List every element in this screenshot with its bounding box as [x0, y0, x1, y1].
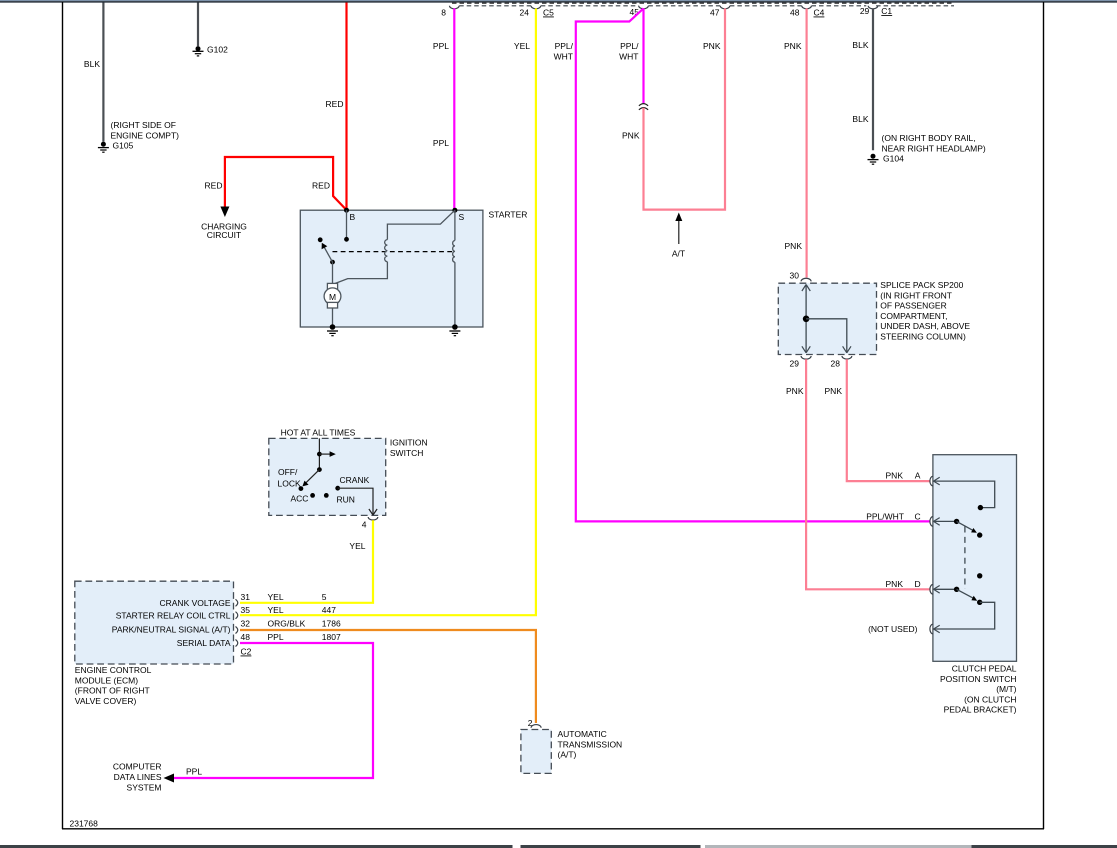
clutch pin A cup and arrow — [930, 476, 940, 486]
splice pack pin 29 cup — [790, 356, 812, 369]
svg-text:POSITION SWITCH: POSITION SWITCH — [940, 674, 1017, 684]
svg-text:STARTER: STARTER — [489, 210, 528, 220]
svg-text:G102: G102 — [207, 44, 228, 54]
svg-text:CIRCUIT: CIRCUIT — [207, 230, 241, 240]
clutch pin A internal path — [934, 481, 995, 510]
svg-text:RED: RED — [312, 181, 330, 191]
svg-text:48: 48 — [790, 8, 800, 18]
wire PPL/WHT pin 45 down to break — [619, 8, 643, 103]
svg-text:PNK: PNK — [622, 131, 640, 141]
svg-text:CRANK: CRANK — [340, 475, 370, 485]
svg-text:UNDER DASH, ABOVE: UNDER DASH, ABOVE — [880, 321, 970, 331]
svg-text:30: 30 — [790, 271, 800, 281]
svg-text:A: A — [915, 471, 921, 481]
ignition switch box — [269, 428, 428, 516]
svg-text:CLUTCH PEDAL: CLUTCH PEDAL — [952, 664, 1017, 674]
svg-text:PPL: PPL — [186, 767, 202, 777]
wire PPL/WHT pin 45 to clutch switch pin C — [554, 8, 930, 521]
svg-text:OFF/: OFF/ — [278, 467, 298, 477]
label PPL/WHT at clutch pin C — [866, 512, 920, 522]
starter solenoid switch blade — [318, 237, 335, 264]
svg-text:(IN RIGHT FRONT: (IN RIGHT FRONT — [880, 290, 952, 300]
svg-text:COMPUTER: COMPUTER — [113, 762, 162, 772]
svg-text:231768: 231768 — [70, 819, 99, 829]
svg-text:YEL: YEL — [349, 541, 365, 551]
clutch pedal position switch box — [933, 455, 1017, 715]
clutch pin D cup and arrow — [930, 585, 940, 595]
svg-text:(M/T): (M/T) — [996, 684, 1016, 694]
svg-text:ACC: ACC — [291, 494, 309, 504]
wire YEL pin 24 to ECM pin 35 — [240, 8, 536, 615]
svg-text:C: C — [915, 512, 921, 522]
ignition switch blade — [302, 467, 321, 486]
svg-text:G105: G105 — [113, 141, 134, 151]
svg-text:48: 48 — [241, 632, 251, 642]
svg-text:BLK: BLK — [84, 59, 100, 69]
wire PPL pin 8 to starter S — [433, 8, 454, 210]
clutch switch upper blade — [934, 519, 983, 538]
ignition switch pin 4 cup — [362, 517, 378, 530]
svg-text:C2: C2 — [241, 647, 252, 657]
svg-text:A/T: A/T — [672, 249, 685, 259]
top bar (previous section remnant) — [0, 0, 1117, 3]
ground G105 — [98, 120, 179, 152]
svg-text:YEL: YEL — [268, 605, 284, 615]
clutch switch lower blade — [934, 587, 983, 605]
svg-text:BLK: BLK — [852, 114, 868, 124]
svg-text:PPL: PPL — [433, 138, 449, 148]
svg-text:DATA LINES: DATA LINES — [114, 772, 162, 782]
ECM pin 48 C2 — [236, 632, 341, 657]
svg-text:RED: RED — [205, 181, 223, 191]
svg-text:YEL: YEL — [514, 41, 530, 51]
svg-text:G104: G104 — [883, 154, 904, 164]
ECM pin 32 — [236, 619, 341, 634]
svg-text:SYSTEM: SYSTEM — [127, 782, 162, 792]
connector dashed line at top (C5/C4/C1 row) — [459, 5, 954, 7]
clutch not-used pin cup and arrow — [868, 624, 940, 634]
svg-text:AUTOMATIC: AUTOMATIC — [558, 729, 607, 739]
clutch pin C cup and arrow — [930, 517, 940, 527]
svg-text:PNK: PNK — [825, 386, 843, 396]
svg-text:HOT AT ALL TIMES: HOT AT ALL TIMES — [281, 428, 356, 438]
svg-text:C1: C1 — [881, 6, 892, 16]
svg-text:ENGINE CONTROL: ENGINE CONTROL — [75, 665, 152, 675]
svg-text:(RIGHT SIDE OF: (RIGHT SIDE OF — [111, 120, 177, 130]
svg-text:VALVE COVER): VALVE COVER) — [75, 696, 137, 706]
ground G104 — [868, 133, 986, 164]
wire RED main vertical to starter B — [326, 3, 347, 211]
diagram id 231768 — [70, 819, 99, 829]
connector cup pin 24 C5 — [520, 6, 555, 18]
starter hold-in winding — [453, 210, 455, 327]
wire PPL ECM pin 48 serial data — [167, 643, 373, 778]
ignition switch contacts — [278, 467, 370, 505]
svg-text:SERIAL DATA: SERIAL DATA — [177, 638, 231, 648]
svg-text:B: B — [350, 212, 356, 222]
starter solenoid ground — [449, 324, 460, 336]
wire break symbol — [639, 104, 648, 110]
svg-text:COMPARTMENT,: COMPARTMENT, — [880, 311, 947, 321]
starter mechanical dashed link — [333, 251, 455, 253]
starter terminal B — [344, 208, 356, 222]
wire RED branch to charging circuit — [205, 157, 347, 210]
clutch not-used internal path — [934, 602, 995, 629]
svg-text:28: 28 — [831, 359, 841, 369]
starter box — [300, 210, 527, 328]
ECM pin 35 — [236, 605, 337, 619]
svg-text:SPLICE PACK SP200: SPLICE PACK SP200 — [880, 280, 963, 290]
svg-text:PNK: PNK — [785, 241, 803, 251]
wire PNK splice 28 to clutch pin A — [825, 359, 930, 481]
svg-text:2: 2 — [528, 718, 533, 728]
svg-text:(A/T): (A/T) — [558, 750, 577, 760]
connector cup pin 45 — [630, 6, 649, 17]
svg-text:1786: 1786 — [322, 619, 341, 629]
svg-text:1807: 1807 — [322, 632, 341, 642]
wire BLK to G102 — [197, 3, 199, 47]
svg-text:35: 35 — [241, 605, 251, 615]
svg-text:47: 47 — [710, 8, 720, 18]
svg-text:PPL/: PPL/ — [555, 41, 574, 51]
starter motor ground — [327, 324, 338, 336]
splice pack box SP200 — [778, 280, 970, 355]
wire PNK splice 29 to clutch pin D — [786, 359, 930, 589]
svg-text:PARK/NEUTRAL SIGNAL (A/T): PARK/NEUTRAL SIGNAL (A/T) — [112, 625, 231, 635]
svg-text:PPL/: PPL/ — [620, 41, 639, 51]
svg-text:WHT: WHT — [619, 52, 638, 62]
svg-text:(NOT USED): (NOT USED) — [868, 624, 918, 634]
ignition switch feed wire — [317, 438, 336, 469]
connector cup pin 8 — [441, 6, 459, 18]
svg-text:NEAR RIGHT HEADLAMP): NEAR RIGHT HEADLAMP) — [882, 144, 986, 154]
svg-text:LOCK: LOCK — [278, 479, 301, 489]
splice pack pin 30 cup — [790, 271, 812, 282]
ECM pin 31 — [236, 592, 327, 606]
svg-text:PNK: PNK — [703, 41, 721, 51]
svg-text:YEL: YEL — [268, 592, 284, 602]
wire ORG/BLK ECM pin 32 to A/T — [240, 630, 536, 723]
svg-text:CRANK VOLTAGE: CRANK VOLTAGE — [159, 598, 230, 608]
svg-text:WHT: WHT — [554, 52, 573, 62]
connector cup pin 47 — [710, 6, 730, 18]
splice pack pin 28 cup — [831, 356, 852, 369]
svg-text:(ON CLUTCH: (ON CLUTCH — [964, 694, 1016, 704]
wire BLK to G105 — [84, 3, 103, 142]
svg-text:PNK: PNK — [784, 41, 802, 51]
splice pack internal bus — [802, 285, 851, 353]
bottom next-page tab bar — [0, 845, 1117, 848]
svg-text:PNK: PNK — [886, 471, 904, 481]
svg-text:ENGINE COMPT): ENGINE COMPT) — [111, 131, 180, 141]
wire PNK break to pin 47 — [622, 8, 725, 209]
arrow from A/T — [672, 213, 685, 259]
svg-text:STARTER RELAY COIL CTRL: STARTER RELAY COIL CTRL — [116, 611, 231, 621]
wire BLK pin 29 to G104 — [852, 8, 873, 150]
svg-text:PNK: PNK — [886, 579, 904, 589]
svg-text:IGNITION: IGNITION — [390, 438, 428, 448]
clutch switch mechanical dashed link — [964, 527, 966, 590]
svg-text:S: S — [459, 212, 465, 222]
svg-text:RED: RED — [326, 99, 344, 109]
automatic transmission box — [521, 729, 622, 773]
starter B contact wire — [344, 210, 349, 242]
svg-text:M: M — [329, 292, 336, 302]
svg-text:RUN: RUN — [337, 495, 355, 505]
clutch switch middle contact — [977, 573, 982, 578]
arrow to charging circuit — [201, 207, 247, 241]
svg-text:PPL: PPL — [268, 632, 284, 642]
connector cup pin 48 C4 — [790, 6, 825, 18]
svg-text:32: 32 — [241, 619, 251, 629]
starter pull-in winding — [335, 210, 455, 283]
svg-text:447: 447 — [322, 605, 336, 615]
svg-text:PPL/WHT: PPL/WHT — [866, 512, 904, 522]
svg-text:24: 24 — [520, 8, 530, 18]
svg-text:MODULE (ECM): MODULE (ECM) — [75, 675, 138, 685]
svg-text:(ON RIGHT BODY RAIL,: (ON RIGHT BODY RAIL, — [882, 133, 976, 143]
starter motor M — [324, 262, 341, 327]
svg-text:STEERING COLUMN): STEERING COLUMN) — [880, 332, 966, 342]
svg-text:(FRONT OF RIGHT: (FRONT OF RIGHT — [75, 686, 150, 696]
svg-text:SWITCH: SWITCH — [390, 448, 424, 458]
A/T box pin 2 cup — [528, 718, 541, 728]
ground G102 — [193, 44, 229, 56]
svg-text:D: D — [915, 579, 921, 589]
svg-text:BLK: BLK — [852, 40, 868, 50]
arrow to computer data lines — [113, 762, 174, 793]
svg-text:ORG/BLK: ORG/BLK — [268, 619, 306, 629]
ignition switch crank output wire — [338, 488, 377, 515]
wire PNK pin 48 to splice pack pin 30 — [784, 8, 807, 277]
svg-text:4: 4 — [362, 520, 367, 530]
wire YEL ignition pin 4 to ECM pin 31 — [240, 520, 373, 603]
svg-text:8: 8 — [441, 8, 446, 18]
svg-text:PPL: PPL — [433, 41, 449, 51]
svg-text:5: 5 — [322, 592, 327, 602]
svg-text:PEDAL BRACKET): PEDAL BRACKET) — [944, 705, 1017, 715]
svg-text:29: 29 — [860, 6, 870, 16]
connector cup pin 29 C1 — [860, 6, 893, 16]
svg-text:TRANSMISSION: TRANSMISSION — [558, 739, 623, 749]
ECM box — [75, 581, 234, 706]
svg-text:OF PASSENGER: OF PASSENGER — [880, 301, 946, 311]
svg-text:C4: C4 — [814, 8, 825, 18]
svg-text:31: 31 — [241, 592, 251, 602]
svg-text:29: 29 — [790, 359, 800, 369]
svg-text:PNK: PNK — [786, 386, 804, 396]
svg-text:C5: C5 — [543, 8, 554, 18]
starter terminal S — [452, 208, 464, 222]
